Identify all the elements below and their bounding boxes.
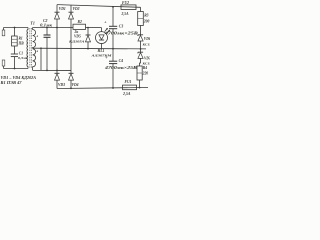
svg-text:HL1: HL1 <box>97 49 105 53</box>
wire: mains phase from plug pin X1.1 to transformer primary top <box>4 27 29 29</box>
LED HL1 <box>96 28 110 43</box>
fuse FU2 <box>121 5 136 10</box>
diode VD3 <box>55 73 60 80</box>
svg-text:VD1: VD1 <box>59 7 66 11</box>
wire: C3 to mid bus <box>112 29 114 49</box>
diode VD4 <box>69 73 74 80</box>
wire: R1 to C1 <box>14 46 16 54</box>
svg-text:КС156А: КС156А <box>141 62 150 66</box>
wire: C1 to mains neutral wire <box>14 57 16 69</box>
junction: C1/neutral node <box>14 68 16 70</box>
junction: C3/C4 mid bus node <box>112 48 114 50</box>
wire: C4 to bottom bus <box>112 64 114 88</box>
transformer T1 secondary winding (upper half) <box>33 28 36 49</box>
zener diode VD7 <box>138 52 143 58</box>
wire: secondary top lead to R2 (AC feed line) <box>33 27 73 29</box>
svg-text:R1 ПЭВ 47: R1 ПЭВ 47 <box>1 81 22 85</box>
junction: mid bus / riser node <box>40 47 42 49</box>
capacitor C3 (polarized) <box>109 26 117 28</box>
svg-text:+: + <box>105 55 108 60</box>
diode VD2 <box>69 12 74 19</box>
junction: AC line / VD column node <box>56 70 58 72</box>
wire: mid bus to VD7 <box>140 49 142 52</box>
resistor R1 <box>12 36 18 46</box>
wire: R3 to VD6 <box>140 26 142 35</box>
wire: VD5 to mid bus <box>87 42 89 49</box>
svg-text:VD1 – VD4 КД202А: VD1 – VD4 КД202А <box>1 76 37 80</box>
wire: mains neutral from plug pin X1.2 to transformer primary bottom <box>4 68 29 70</box>
svg-text:2,5А: 2,5А <box>122 92 131 96</box>
wire: VD1 cathode riser to top bus <box>56 5 58 13</box>
resistor R2 <box>73 24 86 29</box>
junction: C4 bottom bus node <box>112 87 114 89</box>
svg-text:VD4: VD4 <box>72 83 79 87</box>
wire: VD5 anode drop <box>87 28 89 35</box>
svg-text:R1: R1 <box>19 37 23 41</box>
wire: bottom negative bus through FU1 <box>57 88 148 89</box>
wire: common (center-tap) mid bus <box>33 47 146 50</box>
diode VD1 <box>55 12 60 19</box>
capacitor C2 <box>44 35 51 37</box>
fuse FU1 <box>123 85 137 90</box>
svg-text:R4: R4 <box>143 66 147 70</box>
svg-text:КС156А: КС156А <box>141 42 150 46</box>
resistor R4 <box>137 66 142 80</box>
svg-text:2,5А: 2,5А <box>121 12 130 16</box>
plug pin X1.2 <box>2 60 5 69</box>
svg-text:4700мк×25В: 4700мк×25В <box>103 31 139 35</box>
wire: VD2 anode / VD4 cathode column (AC node B) <box>70 19 72 73</box>
junction: VD4 bottom bus node <box>70 87 72 89</box>
wire: C2 bottom connection <box>46 37 48 70</box>
wire: C4 drop from mid bus <box>112 49 114 62</box>
svg-text:VD3: VD3 <box>58 83 65 87</box>
junction: VD5 mid bus node <box>87 48 89 50</box>
transformer T1 secondary winding (lower half) <box>33 49 36 71</box>
svg-text:R2: R2 <box>78 20 82 24</box>
junction: mains/R1 node <box>14 27 16 29</box>
capacitor C1 <box>11 54 18 57</box>
wire: VD7 to R4 <box>140 58 141 66</box>
wire: top positive bus from VD1/VD2 cathodes through FU2 to R3 column <box>57 5 141 8</box>
wire: VD3 anode to bottom bus <box>56 80 58 88</box>
junction: VD5 top node <box>87 27 89 29</box>
wire: HL1 cathode to mid bus <box>101 43 103 49</box>
junction: R4 bottom bus node <box>139 87 141 89</box>
wire: R4 to bottom bus <box>139 80 141 88</box>
svg-text:+: + <box>104 20 107 25</box>
svg-text:0,1мк: 0,1мк <box>40 24 52 28</box>
junction: zener mid bus node <box>140 48 142 50</box>
svg-text:в: в <box>37 49 39 53</box>
svg-text:в: в <box>37 34 39 38</box>
wire: VD2 cathode riser to top bus <box>70 5 72 12</box>
svg-text:С4: С4 <box>119 59 124 63</box>
svg-text:VD7: VD7 <box>144 56 150 60</box>
wire: VD4 anode to bottom bus <box>70 80 72 88</box>
resistor R3 <box>138 12 144 26</box>
wire: secondary bottom lead line to VD2/VD4 column <box>33 69 71 71</box>
plug pin X1.1 <box>2 28 5 36</box>
svg-text:С2: С2 <box>43 19 48 23</box>
wire: VD6 to mid bus <box>140 41 142 49</box>
svg-text:VD6: VD6 <box>144 37 150 41</box>
svg-text:АЛ307БМ: АЛ307БМ <box>90 53 112 57</box>
junction: C2 top node <box>46 27 48 29</box>
wire: R3 feed from top bus corner <box>140 7 142 11</box>
svg-text:FU2: FU2 <box>122 1 129 5</box>
wire: riser joining mid bus to secondary bottom line <box>40 48 42 70</box>
transformer T1 core <box>30 28 31 68</box>
svg-text:4700мк×25В: 4700мк×25В <box>103 66 138 70</box>
svg-text:R3: R3 <box>144 14 148 18</box>
svg-text:200: 200 <box>143 19 150 23</box>
svg-text:0,5мк: 0,5мк <box>18 56 28 60</box>
wire: VD1 anode / VD3 cathode column (AC node A) <box>56 19 58 73</box>
wire: HL1 top riser <box>101 28 103 32</box>
svg-text:КД105А: КД105А <box>68 39 86 43</box>
svg-text:Т1: Т1 <box>30 20 34 25</box>
wire: R1 branch drop from mains wire <box>14 28 16 37</box>
junction: C3 top bus node <box>112 6 114 8</box>
zener diode VD6 <box>138 35 143 41</box>
svg-text:ПВ: ПВ <box>18 41 25 45</box>
svg-text:С1: С1 <box>19 51 23 55</box>
wire: C3 drop from top bus <box>112 7 114 26</box>
capacitor C4 (polarized) <box>109 61 117 63</box>
diode VD5 <box>86 35 91 42</box>
junction: AC node A top <box>56 27 58 29</box>
svg-text:2к: 2к <box>74 30 79 34</box>
svg-text:220: 220 <box>142 71 149 75</box>
transformer T1 primary winding <box>27 28 28 69</box>
wire: C2 top connection <box>46 28 48 36</box>
wire: R2 output to LED branch corner <box>86 27 102 29</box>
svg-text:VD5: VD5 <box>74 35 81 39</box>
svg-text:FU1: FU1 <box>125 80 132 84</box>
svg-text:VD2: VD2 <box>73 7 80 11</box>
svg-text:С3: С3 <box>119 24 124 28</box>
junction: C2 bottom node <box>46 70 48 72</box>
